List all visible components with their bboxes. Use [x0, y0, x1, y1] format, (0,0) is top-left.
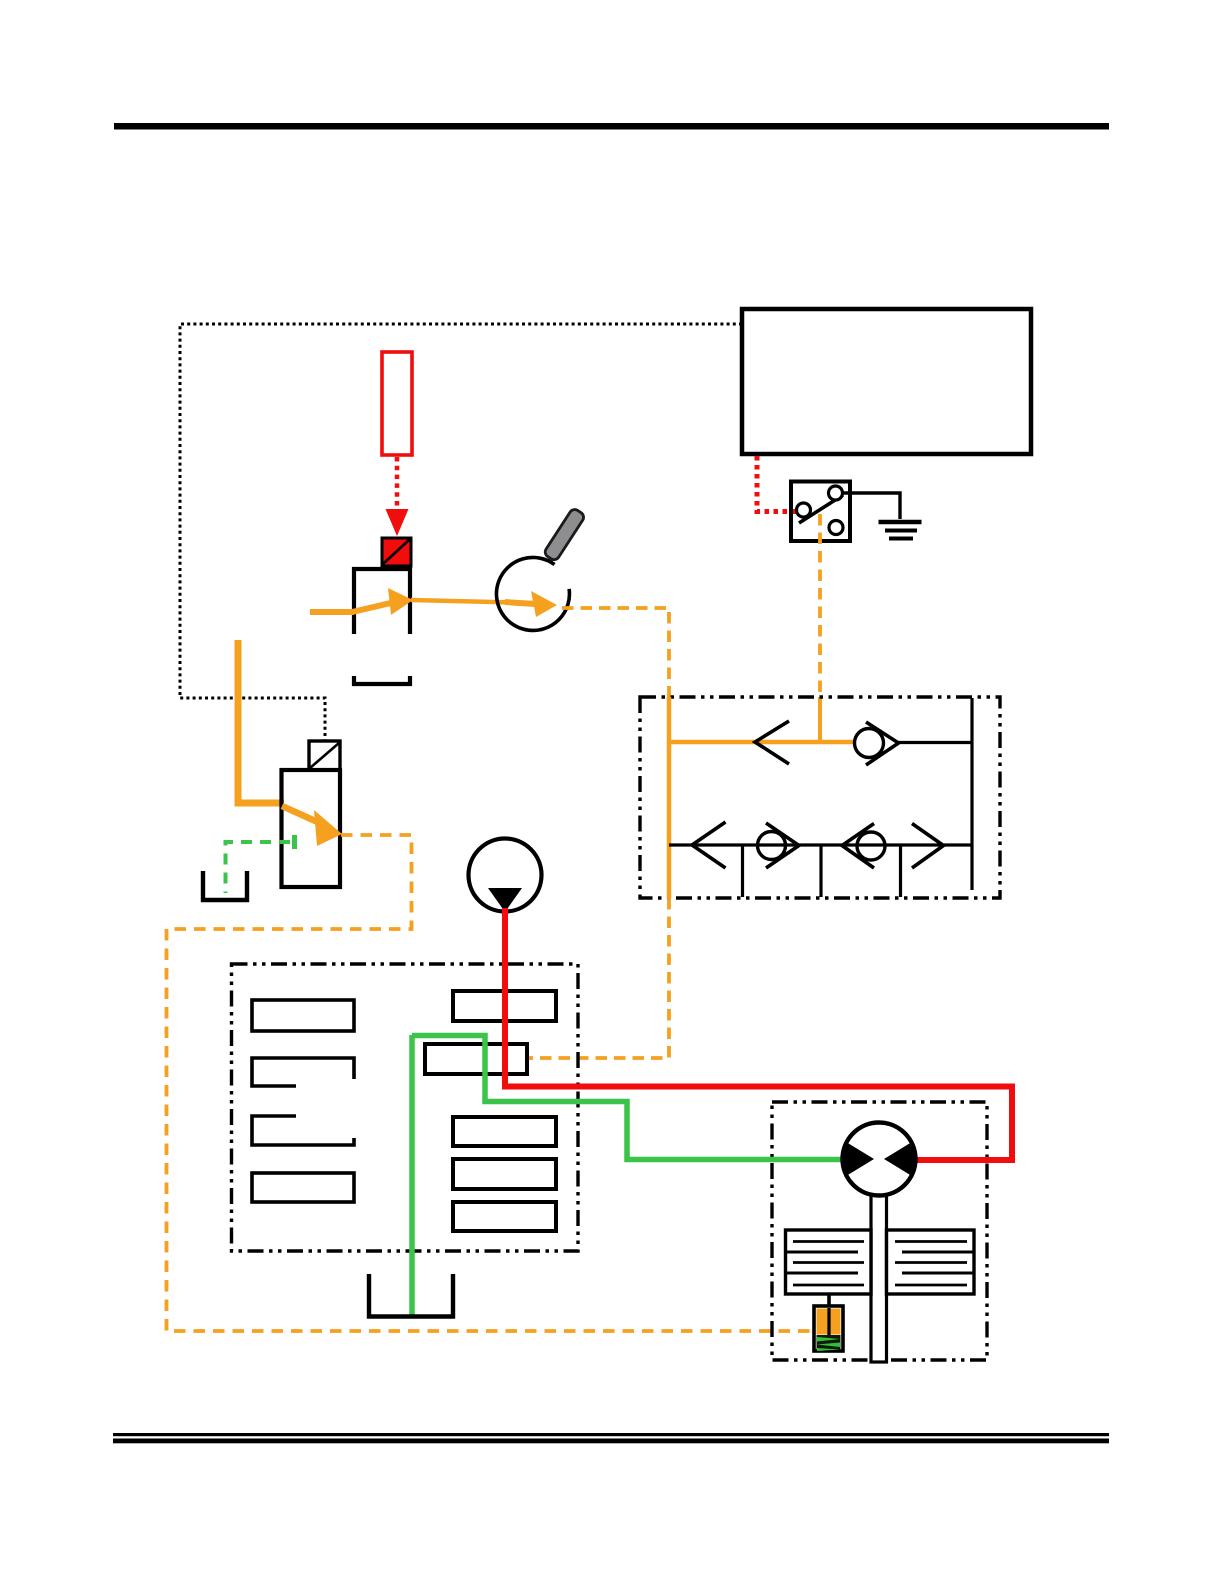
manifold port rect L4 [252, 1173, 354, 1202]
wire orange dashed block down to manifold [528, 898, 669, 1058]
contact top right [829, 486, 843, 500]
lower rail [669, 843, 972, 846]
manifold port rect L1 [252, 1000, 354, 1031]
drop wire 3 [899, 845, 902, 897]
solenoid S1 (energized, red) [382, 538, 411, 566]
gauge G1 circle [496, 557, 569, 630]
flow arrow at gauge [505, 602, 535, 604]
motor M circle [843, 1123, 916, 1196]
wire red dotted control box to switch [757, 456, 797, 512]
contact left [797, 503, 811, 517]
control box U1 [742, 309, 1031, 454]
manifold port L3 (open corner) [252, 1116, 354, 1145]
manifold port rect P3 [453, 1117, 556, 1146]
check valve chevron CV1a (left, on upper rail) [755, 721, 789, 764]
wire dotted control-box to solenoid S2 [180, 324, 742, 740]
top page rule [114, 123, 1109, 130]
manifold port rect P4 [453, 1159, 556, 1189]
tank T2 [369, 1274, 453, 1317]
inner right bus bar [970, 698, 973, 890]
pipe orange V1 to gauge [411, 600, 533, 603]
manifold port L2 (open corner) [252, 1058, 354, 1086]
manifold port rect P1 [453, 991, 556, 1021]
valve V2 body [282, 770, 341, 887]
thermal bypass valve TV1 [814, 1306, 843, 1351]
tank T1 [203, 871, 247, 900]
wire orange dashed gauge to check block [562, 608, 669, 697]
check valve CV1 circle+chevron [855, 722, 899, 765]
motor triangle right [884, 1141, 914, 1177]
wire upper rail to bus [898, 741, 972, 744]
pump outlet triangle [488, 888, 522, 912]
solenoid S2 box [309, 741, 340, 770]
valve V1 body [354, 569, 410, 634]
chevron CV2a (points left) [692, 822, 726, 868]
contact bottom [829, 521, 843, 535]
indicator R1 (red outline rect) [382, 352, 412, 455]
manifold port rect P5 [453, 1202, 556, 1231]
radiator left block [786, 1230, 872, 1294]
gauge G1 handle [543, 507, 586, 561]
manifold port rect P2 [425, 1044, 527, 1074]
flow arrow inside V2 [282, 806, 322, 824]
pipe orange into V1 [310, 609, 354, 615]
bottom page rule [113, 1433, 1109, 1443]
tank bracket under V1 [354, 676, 410, 684]
fan shaft [871, 1190, 887, 1362]
manifold enclosure [232, 964, 579, 1251]
chevron CV3a (points right) [912, 824, 944, 869]
pipe orange upper rail [669, 740, 856, 745]
motor enclosure [772, 1102, 987, 1360]
link radiator to thermal valve [827, 1294, 831, 1335]
wire orange solid inside block top [818, 697, 822, 743]
wire orange dashed V2 A-port long loop to cooler [167, 835, 813, 1331]
check valve CV3 circle+chevron left [842, 824, 885, 869]
pipe red pump to motor [505, 908, 1012, 1160]
motor triangle left [845, 1141, 875, 1177]
ground [879, 522, 922, 539]
lever [799, 495, 843, 523]
wire green dashed V2 to tank [226, 842, 291, 893]
pipe green manifold return to tank [409, 1035, 415, 1315]
drop wire 2 [819, 845, 822, 897]
wire orange dashed switch down to check block [818, 514, 822, 697]
pressure switch SW1 [791, 482, 850, 542]
pipe orange main supply (thick vertical) [238, 640, 284, 803]
wire switch to ground [843, 493, 900, 519]
pipe orange vertical through block [667, 697, 672, 898]
arrowhead red [386, 509, 409, 536]
flow arrow inside V1 [352, 602, 395, 612]
drop wire 1 [741, 845, 744, 897]
check valve block enclosure [640, 697, 1000, 898]
radiator right block [887, 1230, 975, 1294]
pipe green manifold to motor [412, 1036, 845, 1160]
wire red dotted indicator to solenoid S1 [395, 457, 400, 508]
green port stub [292, 835, 297, 849]
pump P circle [469, 839, 542, 912]
check valve CV2 circle+chevron right [758, 823, 800, 868]
